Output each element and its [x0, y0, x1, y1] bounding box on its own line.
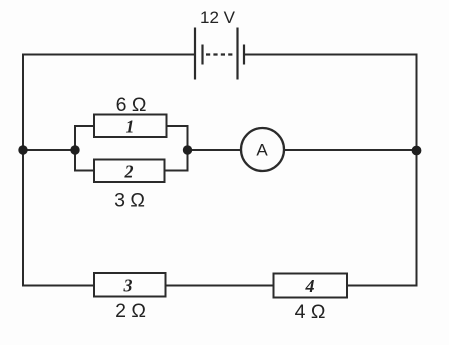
svg-text:2 Ω: 2 Ω [115, 300, 146, 322]
wire: middle conductor from left rail to branch point [22, 149, 75, 151]
svg-text:1: 1 [126, 117, 135, 137]
wire: bottom conductor through R3 and R4 [22, 285, 418, 287]
battery long plate left cell [194, 28, 196, 80]
svg-text:3: 3 [123, 276, 133, 296]
battery short plate left cell [201, 45, 203, 65]
resistor R1 (6 ohm) box [94, 115, 167, 138]
svg-text:A: A [256, 141, 268, 160]
svg-text:12 V: 12 V [200, 8, 236, 27]
svg-text:3 Ω: 3 Ω [114, 190, 145, 212]
wire: left branch vertical of parallel pair [74, 126, 76, 171]
battery long plate right cell [236, 28, 238, 80]
svg-text:4: 4 [305, 276, 315, 296]
wire: lower branch conductor through R2 [74, 170, 189, 172]
wire: middle conductor right of ammeter [284, 149, 417, 151]
wire: middle conductor from branch point to ammeter [188, 149, 242, 151]
resistor R2 (3 ohm) box [94, 160, 165, 183]
wire: right branch vertical of parallel pair [187, 126, 189, 171]
wire: upper branch conductor through R1 [74, 125, 189, 127]
node: junction dot on left rail [18, 145, 27, 154]
svg-text:6 Ω: 6 Ω [116, 94, 147, 116]
battery B1 12 V [195, 28, 244, 80]
wire: top-right segment from battery to right rail [244, 54, 418, 56]
battery dashed link (more cells) [206, 53, 233, 55]
svg-text:2: 2 [124, 162, 134, 182]
svg-text:4 Ω: 4 Ω [295, 301, 326, 323]
resistor R3 (2 ohm) box [94, 273, 166, 297]
battery short plate right cell [243, 45, 245, 65]
node: junction dot at left branch point [70, 145, 79, 154]
wire: right rail [416, 54, 418, 287]
wire: left rail [22, 54, 24, 287]
wire: top-left segment from left rail to battery [22, 54, 195, 56]
ammeter A1 [241, 128, 284, 171]
node: junction dot at right branch point [183, 145, 192, 154]
node: junction dot on right rail [412, 146, 422, 156]
resistor R4 (4 ohm) box [274, 274, 348, 298]
